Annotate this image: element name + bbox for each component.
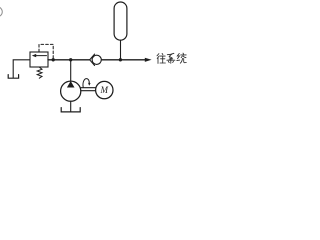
svg-text:M: M [100, 85, 109, 95]
